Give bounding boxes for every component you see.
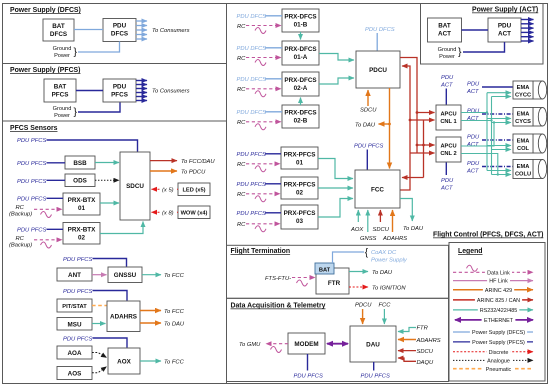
- svg-text:PFCS: PFCS: [52, 92, 69, 99]
- wire ADAHRS to DAU right (ARINC429): [398, 339, 416, 341]
- wire PDU PFCS to FCC top: [366, 150, 368, 170]
- section box: Power Supply ACT: [421, 4, 544, 65]
- svg-text:PDU DFCS: PDU DFCS: [237, 110, 267, 116]
- svg-text:Ground: Ground: [53, 46, 72, 52]
- wire WOW discrete to SDCU: [152, 211, 179, 213]
- wire PDU ACT to APCU CNL2 bottom: [445, 163, 447, 176]
- box FTR: [316, 268, 349, 294]
- svg-text:Power: Power: [439, 54, 455, 60]
- junction dot orange: [388, 123, 391, 126]
- svg-text:Flight Control (PFCS, DFCS, AC: Flight Control (PFCS, DFCS, ACT): [433, 232, 543, 239]
- wire GNSS to FCC bottom (RS232): [367, 210, 369, 232]
- svg-text:Discrete: Discrete: [489, 350, 509, 356]
- wire branch To DAU (ARINC429): [379, 123, 390, 125]
- wire AOA to AOX (analogue): [92, 353, 107, 358]
- svg-text:(x 5): (x 5): [162, 188, 174, 194]
- wire FCC out to bus V1 to PDCU in: [400, 66, 410, 190]
- svg-text:SDCU: SDCU: [417, 349, 434, 355]
- box ANT: [57, 268, 92, 281]
- wire PDU ACT to APCU CNL1 top: [445, 89, 447, 105]
- svg-text:PDU DFCS: PDU DFCS: [237, 14, 267, 20]
- svg-text:PDU DFCS: PDU DFCS: [237, 46, 267, 52]
- svg-text:PRX-DFCS: PRX-DFCS: [284, 110, 316, 117]
- svg-text:}: }: [74, 46, 78, 58]
- svg-text:PDU PFCS: PDU PFCS: [237, 152, 266, 158]
- HF squiggle (FTS-FTU): [297, 280, 308, 286]
- wire PDU DFCS to 01-A: [265, 47, 282, 49]
- svg-text:RC: RC: [16, 236, 25, 242]
- svg-text:Power Supply (DFCS): Power Supply (DFCS): [472, 330, 525, 336]
- legend Data Link: [453, 271, 533, 273]
- svg-text:Power Supply: Power Supply: [371, 257, 408, 263]
- wire FTR to DAU (RS232): [349, 271, 368, 273]
- wire FTR to IGNITION (discrete): [349, 286, 368, 288]
- box AOX: [108, 348, 140, 374]
- svg-text:PDU: PDU: [113, 84, 127, 91]
- svg-text:RC: RC: [237, 56, 246, 62]
- svg-text:Power Supply (ACT): Power Supply (ACT): [472, 7, 538, 14]
- svg-text:ACT: ACT: [466, 89, 479, 95]
- box AOS: [57, 367, 92, 380]
- section box: Data Acquisition: [227, 298, 449, 381]
- box PRX-DFCS 01-A: [282, 41, 319, 65]
- wire PRX 01 to FCC (RS232): [318, 159, 353, 179]
- wire PDU PFCS to GNSSU top: [93, 259, 127, 267]
- section box: Legend: [449, 243, 545, 382]
- svg-text:PDU DFCS: PDU DFCS: [365, 27, 395, 33]
- legend Analogue: [453, 359, 533, 361]
- svg-text:To FCC: To FCC: [164, 273, 185, 279]
- wire PRX-BTX 01 to SDCU (RS232): [100, 202, 119, 204]
- svg-text:PFCS Sensors: PFCS Sensors: [10, 125, 58, 132]
- svg-text:WOW (x4): WOW (x4): [181, 211, 208, 217]
- wire SDCU to DAU right (ARINC825): [398, 350, 416, 352]
- box LED (x5): [178, 183, 210, 196]
- wire BAT to CoAX DC power supply: [333, 252, 365, 263]
- box PDU DFCS: [103, 19, 136, 42]
- svg-text:Data Acquisition & Telemetry: Data Acquisition & Telemetry: [231, 303, 326, 310]
- box PRX-DFCS 02-B: [282, 105, 319, 128]
- HF squiggle (RC 01): [41, 212, 52, 218]
- svg-text:01-A: 01-A: [294, 54, 308, 61]
- wire RC data link to 01-A: [246, 57, 281, 59]
- box AOA: [57, 346, 92, 359]
- svg-text:EMA: EMA: [517, 112, 530, 118]
- svg-text:PRX-PFCS: PRX-PFCS: [284, 210, 316, 217]
- arrows into EMA CYCC: [487, 92, 511, 94]
- wire PRX 03 to FCC (RS232): [318, 199, 353, 218]
- box BAT (FTR battery): [315, 263, 334, 274]
- svg-text:Power Supply (PFCS): Power Supply (PFCS): [472, 340, 525, 346]
- HF squiggle (PRX 03): [255, 226, 266, 232]
- svg-text:RC: RC: [237, 162, 246, 168]
- svg-text:EMA: EMA: [517, 139, 530, 145]
- wire CNL1 out A to bus V487: [461, 112, 487, 114]
- svg-text:PDU PFCS: PDU PFCS: [17, 179, 46, 185]
- legend Power Supply (DFCS): [453, 331, 533, 333]
- box EMA COL with cylinder: [513, 134, 547, 153]
- svg-text:PRX-DFCS: PRX-DFCS: [284, 14, 316, 21]
- svg-text:PDU: PDU: [467, 161, 480, 167]
- svg-text:Ground: Ground: [438, 47, 457, 53]
- wire PDU PFCS to PRX-BTX 01: [47, 197, 64, 199]
- wire PDU PFCS to PRX 03: [265, 212, 281, 214]
- svg-text:To Consumers: To Consumers: [152, 28, 190, 34]
- wire RC data link to 01-B: [246, 25, 281, 27]
- svg-text:ADAHRS: ADAHRS: [110, 314, 137, 321]
- wires PDU PFCS to consumers (6 arrows): [136, 81, 147, 101]
- svg-text:PDU PFCS: PDU PFCS: [63, 257, 92, 263]
- svg-text:Power: Power: [54, 53, 70, 59]
- svg-text:To DAU: To DAU: [403, 226, 424, 232]
- box ADAHRS: [107, 301, 140, 332]
- svg-text:HF Link: HF Link: [489, 279, 508, 285]
- wire bus V2 to APCU CNL2: [417, 144, 435, 146]
- wire PIT/STAT to ADAHRS (pneumatic): [92, 305, 107, 307]
- svg-text:01: 01: [296, 160, 304, 167]
- svg-text:FTS-FTU-: FTS-FTU-: [265, 276, 291, 282]
- svg-text:RC: RC: [16, 205, 25, 211]
- svg-text:To DAU: To DAU: [164, 322, 185, 328]
- wire PDU DFCS to 02-A: [265, 78, 282, 80]
- wire 01-B to 01-A (RS232): [300, 32, 302, 40]
- svg-text:PRX-PFCS: PRX-PFCS: [284, 152, 316, 159]
- svg-text:DAQU: DAQU: [417, 360, 435, 366]
- wire RC data link to 02-B: [246, 121, 281, 123]
- bus V487 vertical: [486, 93, 488, 171]
- svg-text:PDU PFCS: PDU PFCS: [63, 337, 92, 343]
- svg-text:Analogue: Analogue: [487, 359, 510, 365]
- box EMA COLU with cylinder: [513, 160, 547, 179]
- svg-text:To FCC: To FCC: [164, 360, 185, 366]
- svg-text:02: 02: [78, 235, 86, 242]
- HF squiggle (PRX 02): [255, 196, 266, 202]
- wire PDU PFCS to ADAHRS top: [93, 291, 128, 301]
- svg-text:ACT: ACT: [466, 116, 479, 122]
- svg-text:CYCS: CYCS: [515, 119, 531, 125]
- box WOW (x4): [178, 206, 210, 219]
- wire bus V1 to APCU CNL2: [410, 152, 435, 154]
- svg-text:RC: RC: [237, 120, 246, 126]
- svg-text:DAU: DAU: [366, 342, 380, 349]
- wire RC data link to PRX 03: [246, 223, 280, 225]
- svg-text:BAT: BAT: [52, 23, 65, 30]
- wire FTR to DAU right (RS232): [398, 328, 416, 332]
- svg-text:PDU: PDU: [498, 23, 512, 30]
- wire AOX to FCC (RS232): [140, 360, 161, 362]
- svg-text:SDCU: SDCU: [360, 108, 377, 114]
- wire PDU PFCS to SDCU top: [47, 140, 138, 152]
- wire MSU to ADAHRS (RS232): [92, 323, 106, 325]
- wire PDCU out to bus V2: [400, 58, 417, 154]
- svg-text:Ground: Ground: [53, 106, 72, 112]
- bus V491 vertical: [491, 97, 493, 175]
- svg-text:}: }: [458, 46, 462, 58]
- box ODS: [65, 174, 95, 187]
- svg-text:To DAU: To DAU: [355, 123, 376, 129]
- svg-text:02-B: 02-B: [294, 118, 308, 125]
- svg-text:ETHERNET: ETHERNET: [484, 318, 514, 324]
- wire RC data link to PRX-BTX 01: [34, 208, 62, 210]
- svg-text:APCU: APCU: [440, 112, 456, 118]
- legend Discrete: [453, 351, 533, 353]
- svg-text:PRX-DFCS: PRX-DFCS: [284, 46, 316, 53]
- svg-text:PRX-DFCS: PRX-DFCS: [284, 77, 316, 84]
- svg-text:PRX-BTX: PRX-BTX: [68, 227, 96, 234]
- wire PDU DFCS to 02-B: [265, 111, 282, 113]
- svg-text:ADAHRS: ADAHRS: [416, 338, 441, 344]
- wire 02-B to 02-A (RS232): [300, 98, 302, 106]
- box PRX-BTX 01: [63, 193, 100, 215]
- wires PDU DFCS to consumers (5 arrows): [136, 21, 147, 39]
- svg-text:Data Link: Data Link: [487, 270, 510, 276]
- section box: Flight Termination: [227, 245, 449, 298]
- svg-text:DFCS: DFCS: [111, 31, 128, 38]
- svg-text:PDU: PDU: [467, 109, 480, 115]
- wire PDU ACT to EMA COLU (dash-dot): [482, 166, 513, 168]
- box DAU: [350, 326, 396, 362]
- section divider: left column right edge: [226, 4, 228, 384]
- svg-text:Power Supply (PFCS): Power Supply (PFCS): [10, 67, 80, 74]
- wire PDU DFCS to 01-B: [265, 15, 282, 17]
- wire ANT to GNSSU (HF link): [92, 274, 107, 276]
- section divider: PFCS power / sensors: [3, 120, 227, 122]
- wire PDU PFCS to PRX 01: [265, 153, 281, 155]
- wire ADAHRS to FCC bottom (ARINC429): [392, 210, 394, 232]
- svg-text:To IGNITION: To IGNITION: [372, 286, 406, 292]
- svg-text:ACT: ACT: [438, 31, 451, 38]
- box EMA CYCS with cylinder: [513, 108, 547, 127]
- svg-text:EMA: EMA: [517, 164, 530, 170]
- svg-text:CNL 1: CNL 1: [440, 119, 456, 125]
- svg-text:BSB: BSB: [73, 160, 87, 167]
- wire bus V1 to APCU CNL1: [410, 119, 435, 121]
- svg-text:AOX: AOX: [117, 359, 131, 366]
- wire BAT PFCS to PDU PFCS: [76, 90, 103, 92]
- box PRX-DFCS 01-B: [282, 9, 319, 32]
- wire PDCU down to FCC top (ARINC429): [389, 88, 391, 169]
- svg-text:To PDCU: To PDCU: [181, 170, 206, 176]
- svg-text:PDCU: PDCU: [369, 67, 387, 74]
- svg-text:PFCS: PFCS: [111, 92, 128, 99]
- svg-text:}: }: [74, 106, 78, 118]
- wire FTS-FTU data link to FTR: [292, 277, 315, 279]
- svg-text:CYCC: CYCC: [515, 93, 531, 99]
- wire DAQU to DAU right (ARINC825): [398, 358, 416, 361]
- wire CNL2 out A up to CYCS line: [461, 123, 494, 147]
- box MODEM: [288, 333, 325, 354]
- svg-text:Power Supply (DFCS): Power Supply (DFCS): [10, 7, 81, 14]
- svg-text:PRX-BTX: PRX-BTX: [68, 197, 96, 204]
- svg-text:PDU: PDU: [467, 82, 480, 88]
- svg-text:BAT: BAT: [438, 23, 451, 30]
- wire CNL1 out B to bus V491: [461, 120, 492, 122]
- svg-text:RS232/422/485: RS232/422/485: [480, 308, 517, 314]
- section divider: DFCS/PFCS power supply: [3, 63, 227, 65]
- wire RC data link to PRX 02: [246, 193, 280, 195]
- svg-text:(Backup): (Backup): [9, 243, 32, 249]
- svg-text:RC: RC: [237, 87, 246, 93]
- box FCC: [355, 170, 400, 208]
- legend ARINC 825 / CAN: [453, 299, 533, 301]
- wire PDU ACT to EMA CYCS (dash-dot): [482, 113, 513, 115]
- svg-text:02-A: 02-A: [294, 85, 308, 92]
- wire bus into FCC right: [402, 177, 424, 179]
- box PDCU: [356, 51, 400, 88]
- arrows into EMA COLU: [487, 170, 511, 172]
- svg-text:FTR: FTR: [417, 326, 429, 332]
- arrows into EMA CYCS: [487, 118, 511, 120]
- box SDCU: [120, 152, 150, 220]
- junction dots teal: [486, 111, 488, 113]
- svg-text:Pneumatic: Pneumatic: [486, 367, 512, 373]
- svg-text:PDU PFCS: PDU PFCS: [354, 144, 383, 150]
- wire LED discrete to SDCU: [152, 188, 179, 190]
- svg-text:MSU: MSU: [68, 322, 82, 329]
- svg-text:PDU PFCS: PDU PFCS: [17, 161, 46, 167]
- wire AOS to AOX (analogue): [92, 367, 107, 373]
- svg-text:01-B: 01-B: [294, 22, 308, 29]
- svg-text:PDU PFCS: PDU PFCS: [237, 211, 266, 217]
- svg-text:CNL 2: CNL 2: [440, 151, 456, 157]
- legend Pneumatic: [453, 368, 533, 370]
- RS232 bus APCU CNL1 to EMAs: [461, 93, 511, 175]
- wire PRX-BTX 02 to SDCU bottom (RS232): [100, 222, 143, 234]
- svg-text:To FCC: To FCC: [164, 309, 185, 315]
- wire PDU PFCS to PRX-BTX 02: [47, 228, 64, 230]
- legend Power Supply (PFCS): [453, 341, 533, 343]
- legend ETHERNET: [455, 319, 533, 321]
- svg-text:PDCU: PDCU: [355, 303, 372, 309]
- HF squiggle (02-B): [255, 124, 266, 130]
- wire RC data link to PRX-BTX 02: [34, 239, 62, 241]
- svg-text:PDU PFCS: PDU PFCS: [17, 197, 46, 203]
- svg-text:SDCU: SDCU: [126, 183, 144, 190]
- svg-text:SDCU: SDCU: [373, 227, 390, 233]
- wire PDU PFCS to MODEM bottom: [307, 354, 309, 371]
- svg-text:01: 01: [78, 205, 86, 212]
- box APCU CNL 2: [436, 137, 461, 162]
- svg-text:MODEM: MODEM: [294, 341, 318, 348]
- legend RS232/422/485: [453, 309, 533, 311]
- svg-text:Flight Termination: Flight Termination: [231, 248, 291, 255]
- svg-text:Legend: Legend: [458, 248, 483, 255]
- svg-text:AOS: AOS: [68, 371, 82, 378]
- svg-text:AOX: AOX: [350, 227, 364, 233]
- HF squiggle (To GMU): [271, 347, 282, 353]
- wires PDU ACT to consumers (6 arrows): [521, 20, 534, 42]
- legend HF Link: [453, 280, 533, 282]
- wire SDCU to PDCU bottom (ARINC429): [367, 90, 369, 106]
- svg-text:PDU PFCS: PDU PFCS: [17, 138, 46, 144]
- svg-text:ACT: ACT: [466, 169, 479, 175]
- wire PDU ACT to EMA COL (dash-dot): [482, 139, 513, 141]
- HF squiggle (01-B): [255, 28, 266, 34]
- svg-text:EMA: EMA: [517, 85, 530, 91]
- box BSB: [65, 156, 95, 169]
- wire SDCU to PDCU (ARINC429): [150, 170, 177, 172]
- wire FCC to DAU top (RS232): [383, 309, 385, 324]
- wire RC data link to 02-A: [246, 88, 281, 90]
- wire AOX to FCC bottom (RS232): [357, 210, 359, 222]
- wire bus V2 to APCU CNL1: [417, 112, 435, 114]
- wire 02-A to PDCU (RS232): [319, 78, 354, 84]
- svg-text:PDU PFCS: PDU PFCS: [237, 182, 266, 188]
- svg-text:PDU: PDU: [441, 75, 454, 81]
- wire PDU PFCS to PRX 02: [265, 183, 281, 185]
- wire V3 down to FCC in: [423, 145, 425, 178]
- svg-text:02: 02: [296, 190, 304, 197]
- box BAT ACT: [428, 18, 462, 42]
- svg-text:(Backup): (Backup): [9, 212, 32, 218]
- wire PDU PFCS to BSB: [47, 162, 66, 164]
- svg-text:BAT: BAT: [319, 268, 331, 274]
- svg-text:ARINC 825 / CAN: ARINC 825 / CAN: [477, 298, 520, 304]
- box APCU CNL 1: [436, 105, 461, 130]
- svg-text:DFCS: DFCS: [50, 31, 67, 38]
- box MSU: [57, 318, 92, 331]
- box PDU PFCS: [103, 79, 136, 102]
- svg-text:RC: RC: [237, 192, 246, 198]
- wire PDU PFCS to DAU bottom: [373, 362, 375, 371]
- svg-text:FTR: FTR: [328, 280, 341, 287]
- svg-text:FCC: FCC: [379, 303, 392, 309]
- wire 01-A to PDCU (RS232): [319, 54, 354, 61]
- HF squiggle (RC 02): [41, 242, 52, 248]
- label (x 8): [161, 209, 177, 216]
- HF squiggle (01-A): [255, 60, 266, 66]
- box PRX-BTX 02: [63, 223, 100, 245]
- svg-text:PDU: PDU: [441, 178, 454, 184]
- wire PDCU to DAU top (ARINC429): [362, 309, 364, 324]
- svg-text:APCU: APCU: [440, 144, 456, 150]
- svg-text:GNSSU: GNSSU: [114, 272, 137, 279]
- wire SDCU to FCC bottom (ARINC825): [379, 210, 381, 222]
- svg-text:CoAX DC: CoAX DC: [371, 250, 397, 256]
- svg-text:PRX-PFCS: PRX-PFCS: [284, 182, 316, 189]
- box BAT DFCS: [43, 19, 74, 41]
- svg-text:AOA: AOA: [68, 350, 82, 357]
- HF squiggle (PRX 01): [255, 166, 266, 172]
- wire GNSSU to FCC (RS232): [142, 274, 161, 276]
- svg-text:COLU: COLU: [515, 172, 531, 178]
- svg-text:ACT: ACT: [466, 142, 479, 148]
- box PRX-PFCS 01: [281, 147, 318, 169]
- legend ARINC 429: [453, 289, 533, 291]
- svg-text:PDU DFCS: PDU DFCS: [237, 77, 267, 83]
- box PIT/STAT: [57, 299, 92, 312]
- svg-text:ACT: ACT: [440, 83, 453, 89]
- wire PDU ACT to EMA CYCC: [482, 86, 513, 88]
- wire BAT DFCS to PDU DFCS: [74, 29, 103, 31]
- wire BAT ACT to PDU ACT: [462, 29, 489, 31]
- svg-text:ARINC 429: ARINC 429: [485, 288, 512, 294]
- box PRX-PFCS 02: [281, 177, 318, 199]
- wire PDU DFCS to PDCU top: [376, 33, 378, 51]
- wire BSB to SDCU (RS232): [95, 162, 119, 164]
- wire PRX 02 to FCC (RS232): [318, 187, 353, 189]
- svg-text:COL: COL: [517, 146, 530, 152]
- svg-text:PDU PFCS: PDU PFCS: [63, 289, 92, 295]
- wire ODS to SDCU (analogue): [95, 179, 119, 181]
- wire RC data link to PRX 01: [246, 163, 280, 165]
- svg-text:BAT: BAT: [54, 84, 67, 91]
- wire MODEM to DAU (ETHERNET): [327, 343, 348, 345]
- svg-text:To DAU: To DAU: [372, 270, 393, 276]
- svg-text:03: 03: [296, 218, 304, 225]
- HF squiggle (02-A): [255, 91, 266, 97]
- box EMA CYCC with cylinder: [513, 81, 547, 99]
